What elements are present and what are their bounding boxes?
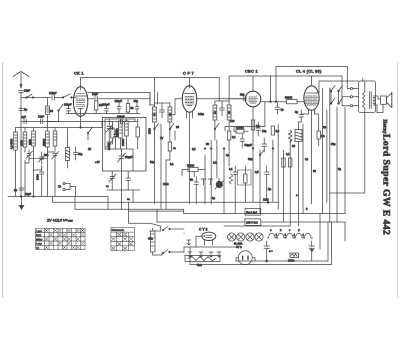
svg-text:100µF: 100µF <box>102 103 110 107</box>
wire transformer bottom down <box>364 113 366 194</box>
lamp circles X <box>228 233 264 249</box>
ground <box>19 196 25 210</box>
wire row y127.5 <box>16 127 63 129</box>
svg-text:50µ: 50µ <box>240 93 245 97</box>
band coil L1 <box>10 128 18 197</box>
capacitor C-ant <box>19 89 31 98</box>
svg-text:50µµF: 50µµF <box>245 143 253 147</box>
svg-text:Lang: Lang <box>36 242 42 246</box>
caps power <box>264 241 273 253</box>
svg-text:2V +12,6 V= anz: 2V +12,6 V= anz <box>46 219 73 223</box>
scattered value labels <box>88 112 341 211</box>
table 1 <box>36 228 86 249</box>
svg-text:30: 30 <box>313 169 316 173</box>
capacitor next to it <box>74 147 83 160</box>
volume pot <box>215 178 224 189</box>
trimmer below box <box>106 172 116 188</box>
svg-text:+4V: +4V <box>95 160 100 164</box>
svg-text:10µF: 10µF <box>24 89 30 93</box>
svg-text:10µF: 10µF <box>38 115 44 119</box>
svg-text:Lage: Lage <box>36 229 42 233</box>
resistor box bottom <box>288 253 299 263</box>
tube CBC1 <box>225 69 286 132</box>
verticals centre <box>157 93 159 105</box>
svg-text:50µµF: 50µµF <box>125 155 133 159</box>
band coil L4 <box>42 122 49 153</box>
switch under CK1 <box>87 127 92 140</box>
resistor hatched left-mid <box>66 128 70 169</box>
capacitor 4pF <box>22 115 27 124</box>
svg-text:5µ: 5µ <box>338 167 341 171</box>
svg-text:Netzansch.: Netzansch. <box>112 228 125 232</box>
switch IF2a <box>214 124 219 141</box>
wire CK1 anode right <box>88 92 150 94</box>
left power leads <box>148 227 184 256</box>
svg-text:100µ: 100µ <box>198 112 204 116</box>
svg-text:0,1: 0,1 <box>229 167 233 171</box>
resistor mid-right column <box>271 126 279 135</box>
osc coil A <box>115 119 122 149</box>
speaker LS <box>381 93 392 108</box>
svg-text:Rel A Rel: Rel A Rel <box>246 210 257 214</box>
capacitor on antenna stem <box>19 108 28 112</box>
svg-text:50µ: 50µ <box>78 152 83 156</box>
trimmer C-var3 <box>52 152 59 163</box>
resistor under IF1 <box>168 142 176 160</box>
svg-text:1000: 1000 <box>36 174 40 180</box>
svg-text:5µ: 5µ <box>268 187 271 191</box>
pin symbols row <box>187 240 221 257</box>
svg-text:3µ: 3µ <box>212 196 215 200</box>
page edge right <box>397 63 399 297</box>
osc trimmer 2 <box>106 137 113 151</box>
svg-text:30µF: 30µF <box>25 192 31 196</box>
svg-text:2µ: 2µ <box>323 125 326 129</box>
svg-text:1MΩ: 1MΩ <box>163 182 169 186</box>
osc internal wires <box>105 118 135 120</box>
svg-text:1000: 1000 <box>19 140 23 146</box>
wires below CL4 <box>301 113 308 115</box>
capacitor below CBC1 <box>240 134 252 148</box>
osc cap mid <box>112 127 118 142</box>
svg-text:100µF: 100µF <box>64 103 72 107</box>
svg-text:50µ: 50µ <box>150 160 155 164</box>
svg-text:100µF: 100µF <box>49 91 57 95</box>
svg-text:CL 4 (CL 33): CL 4 (CL 33) <box>296 69 322 74</box>
osc bottom trimmer <box>118 151 133 165</box>
svg-text:0,1: 0,1 <box>286 152 290 156</box>
svg-text:0,2-5000: 0,2-5000 <box>10 138 14 149</box>
svg-text:ca: ca <box>106 185 109 188</box>
ground bus bottom-left <box>8 195 108 197</box>
wire transformer to speaker <box>376 95 379 97</box>
svg-text:0,1: 0,1 <box>170 162 174 166</box>
cap 1u right <box>275 103 284 114</box>
svg-text:Kurz: Kurz <box>36 233 42 237</box>
bus y202.3 <box>53 201 279 203</box>
component row above osc box <box>113 99 140 114</box>
bus y209.3 <box>75 208 184 210</box>
long verticals right block <box>321 88 323 214</box>
junction dots AF row <box>204 148 206 150</box>
tube CL4 <box>296 69 322 115</box>
osc trimmer 1 <box>106 121 113 134</box>
wire CK1 cathode down <box>80 116 82 127</box>
svg-text:2V: 2V <box>160 136 163 140</box>
svg-text:5µ: 5µ <box>190 178 193 182</box>
svg-text:2500: 2500 <box>28 139 32 145</box>
tube CK1 <box>73 71 87 117</box>
wire top bus1 <box>81 77 190 79</box>
svg-text:C Y 2: C Y 2 <box>199 228 207 232</box>
trimmer row link <box>29 157 47 159</box>
svg-text:30µ: 30µ <box>134 99 139 103</box>
wire mesh left block <box>24 160 26 196</box>
svg-text:50: 50 <box>292 144 295 148</box>
page edge left <box>2 63 4 297</box>
svg-text:a: a <box>270 229 272 232</box>
component row under CK1 <box>64 103 113 114</box>
oscillator box outline <box>103 118 147 172</box>
wire left row y121.5 <box>21 121 47 123</box>
wire y121.5 right segment <box>47 121 58 123</box>
svg-text:10µ: 10µ <box>262 129 267 133</box>
svg-text:30: 30 <box>176 125 179 129</box>
IF transformer 2 <box>213 101 231 128</box>
cap below CL4 <box>295 110 304 122</box>
wires below box <box>111 183 113 190</box>
af cluster caps resistors <box>229 166 269 192</box>
svg-text:30µ: 30µ <box>248 157 253 161</box>
band coil L5 <box>53 128 57 152</box>
mains plug <box>238 251 252 265</box>
phono terminals TA <box>58 182 76 196</box>
svg-text:4: 4 <box>112 127 114 131</box>
svg-text:500: 500 <box>44 153 49 157</box>
resistor block right of CK1 <box>107 122 114 151</box>
bottom bus <box>236 260 328 262</box>
trimmer C-var1 <box>25 150 33 160</box>
antenna <box>13 72 29 89</box>
svg-text:1µ: 1µ <box>281 108 284 112</box>
svg-text:Lord Super GW E 442: Lord Super GW E 442 <box>381 134 392 235</box>
svg-text:10µF: 10µF <box>92 92 98 96</box>
svg-text:CBC 1: CBC 1 <box>245 69 258 74</box>
barretter box <box>185 256 220 267</box>
svg-text:Mittel: Mittel <box>36 237 43 241</box>
band coil L3 <box>28 128 35 171</box>
svg-text:50000: 50000 <box>285 96 293 100</box>
svg-text:3µ: 3µ <box>14 188 17 192</box>
bus y222 <box>157 221 245 223</box>
svg-text:ca: ca <box>127 198 130 201</box>
svg-text:0,5: 0,5 <box>255 170 259 174</box>
svg-text:a =: a = <box>269 250 273 253</box>
svg-text:0,3: 0,3 <box>276 129 280 133</box>
capacitor at CK1 output <box>92 92 150 101</box>
vertical feed lines mid-right <box>275 67 277 102</box>
wire af <box>182 169 188 171</box>
wire CL4 anode up-right <box>317 92 319 94</box>
svg-text:0,5MΩ: 0,5MΩ <box>236 126 244 130</box>
grid cap CBC1 <box>238 93 246 102</box>
resistor right of CL4 <box>317 124 325 146</box>
osc to power verticals <box>121 190 123 209</box>
svg-text:25000: 25000 <box>42 138 46 146</box>
capacitor C1 series <box>49 91 62 100</box>
capacitor 3uF bottom <box>14 188 24 192</box>
svg-text:1MΩ: 1MΩ <box>263 198 269 202</box>
capacitor 1000 mid <box>36 166 44 180</box>
switch S0 <box>26 94 34 98</box>
cap 5u af <box>190 177 199 191</box>
output transformer T1 <box>359 81 376 113</box>
svg-text:d: d <box>298 228 300 232</box>
svg-text:50000: 50000 <box>187 164 195 168</box>
svg-text:Horny: Horny <box>382 120 387 135</box>
switch S1 <box>62 94 73 98</box>
wire top bus2 <box>229 75 342 77</box>
svg-text:150Ω: 150Ω <box>288 259 294 263</box>
svg-text:c: c <box>289 229 291 232</box>
svg-text:1µ: 1µ <box>226 153 229 157</box>
svg-text:5: 5 <box>306 207 308 211</box>
wire antenna stem down <box>20 98 22 197</box>
cap pair mid right <box>256 122 261 136</box>
tube CF7 <box>175 71 246 205</box>
capacitor mid 100pF <box>117 115 125 124</box>
trimmer C-var2 <box>39 152 49 164</box>
svg-text:CK 1: CK 1 <box>74 71 84 76</box>
resistor in box right <box>136 119 139 149</box>
switch S2 <box>58 105 63 122</box>
svg-text:TA: TA <box>58 185 61 189</box>
resistor R cathode <box>95 101 103 114</box>
IF transformer 1 <box>148 93 172 135</box>
band coil L2 <box>19 128 26 153</box>
bus y226 <box>224 225 290 227</box>
resistor 0,5M ohm <box>234 126 248 134</box>
svg-text:C F 7: C F 7 <box>183 71 194 76</box>
junction dots power <box>267 201 269 203</box>
table 2 <box>111 228 134 251</box>
svg-text:TA: TA <box>36 246 39 250</box>
svg-text:100: 100 <box>230 119 235 123</box>
coil box below CL4 <box>295 122 302 152</box>
box Rel A Rel <box>245 209 261 216</box>
svg-text:50: 50 <box>50 109 53 113</box>
wire antenna input line <box>21 97 51 99</box>
rectifier CY2 <box>196 228 216 246</box>
resistor 50k horizontal <box>285 96 304 104</box>
svg-text:0,3: 0,3 <box>321 134 325 138</box>
heater chain bumps <box>267 228 313 238</box>
resistor under IF2 <box>227 128 236 148</box>
switch IF1a <box>154 124 159 205</box>
cap below box <box>126 173 131 186</box>
svg-text:50: 50 <box>131 106 134 110</box>
box 140V Rel <box>245 219 261 226</box>
bus y213.5 <box>226 213 345 215</box>
svg-text:100µF: 100µF <box>117 115 125 119</box>
svg-text:2V: 2V <box>88 147 91 151</box>
svg-text:1µ: 1µ <box>305 157 308 161</box>
resistor 50k horizontal mid <box>187 164 198 172</box>
switch bank top-right <box>330 76 342 104</box>
svg-text:0,1: 0,1 <box>213 161 217 165</box>
svg-text:0,1: 0,1 <box>232 135 236 139</box>
components below CBC1 <box>251 120 260 140</box>
osc coil B <box>121 119 128 149</box>
svg-text:5µ: 5µ <box>24 108 27 112</box>
svg-text:4µF: 4µF <box>22 115 27 119</box>
svg-text:a: a <box>296 194 298 197</box>
svg-text:30000: 30000 <box>121 138 125 146</box>
svg-text:50µ: 50µ <box>331 142 336 146</box>
tone caps <box>201 179 213 185</box>
svg-text:BL 02A: BL 02A <box>234 242 243 246</box>
svg-text:100µF: 100µF <box>115 99 123 103</box>
svg-text:0,3: 0,3 <box>192 147 196 151</box>
wire CF7 grid <box>174 99 176 112</box>
coil L-in <box>46 98 54 122</box>
svg-text:2000: 2000 <box>148 128 152 134</box>
svg-text:b: b <box>280 228 282 232</box>
svg-text:140 V Rel: 140 V Rel <box>246 221 258 225</box>
svg-text:ca: ca <box>173 147 176 150</box>
svg-text:50: 50 <box>206 142 209 146</box>
capacitor 10pF <box>38 115 44 124</box>
svg-text:5µ: 5µ <box>295 110 298 114</box>
terminal circles <box>342 87 359 106</box>
switch IF1b <box>169 124 174 143</box>
